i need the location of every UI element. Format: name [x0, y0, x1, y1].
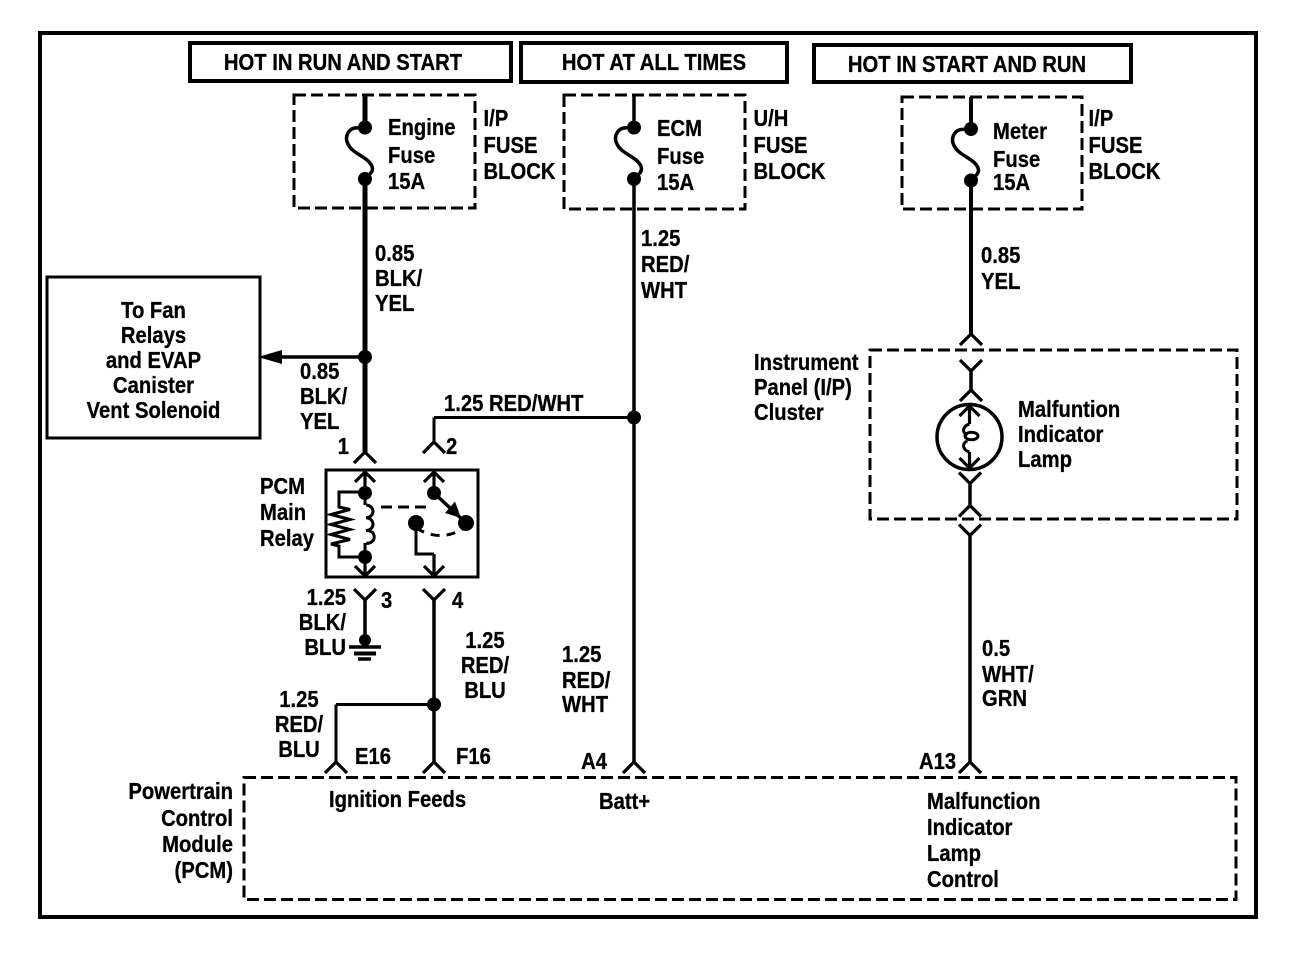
svg-text:Control: Control: [927, 866, 999, 893]
svg-text:BLK/: BLK/: [300, 383, 347, 410]
svg-text:1.25: 1.25: [307, 584, 346, 611]
svg-text:Malfuntion: Malfuntion: [1018, 396, 1120, 423]
svg-text:Meter: Meter: [993, 118, 1048, 145]
svg-text:BLU: BLU: [278, 736, 320, 763]
svg-text:I/P: I/P: [1089, 105, 1114, 132]
svg-text:Canister: Canister: [113, 372, 194, 399]
svg-text:Indicator: Indicator: [927, 814, 1013, 841]
svg-text:Vent Solenoid: Vent Solenoid: [87, 397, 221, 424]
svg-text:Fuse: Fuse: [388, 142, 435, 169]
svg-text:To Fan: To Fan: [121, 297, 186, 324]
svg-text:BLOCK: BLOCK: [484, 158, 556, 185]
svg-text:HOT AT ALL TIMES: HOT AT ALL TIMES: [562, 49, 746, 76]
svg-text:RED/: RED/: [461, 652, 509, 679]
svg-text:1.25: 1.25: [562, 641, 601, 668]
svg-text:YEL: YEL: [300, 408, 339, 435]
svg-text:0.85: 0.85: [981, 242, 1020, 269]
svg-text:BLOCK: BLOCK: [1089, 158, 1161, 185]
svg-text:BLU: BLU: [304, 634, 346, 661]
svg-text:BLK/: BLK/: [375, 265, 422, 292]
svg-text:HOT IN START AND RUN: HOT IN START AND RUN: [848, 51, 1086, 78]
svg-text:E16: E16: [355, 743, 391, 770]
svg-text:Engine: Engine: [388, 114, 455, 141]
svg-text:WHT: WHT: [641, 277, 687, 304]
svg-text:Control: Control: [161, 805, 233, 832]
svg-text:Module: Module: [162, 831, 233, 858]
svg-text:WHT/: WHT/: [982, 661, 1034, 688]
svg-text:Panel (I/P): Panel (I/P): [754, 374, 852, 401]
svg-text:Instrument: Instrument: [754, 349, 859, 376]
svg-text:Lamp: Lamp: [1018, 446, 1072, 473]
svg-text:A13: A13: [919, 748, 956, 775]
svg-text:0.85: 0.85: [375, 240, 414, 267]
svg-text:YEL: YEL: [981, 268, 1020, 295]
svg-text:Relays: Relays: [121, 322, 186, 349]
svg-text:1.25: 1.25: [641, 225, 680, 252]
svg-text:YEL: YEL: [375, 290, 414, 317]
svg-text:Fuse: Fuse: [657, 143, 704, 170]
svg-text:1: 1: [338, 433, 349, 460]
svg-text:15A: 15A: [388, 168, 425, 195]
svg-text:(PCM): (PCM): [175, 857, 233, 884]
svg-text:PCM: PCM: [260, 473, 305, 500]
svg-text:2: 2: [446, 433, 457, 460]
svg-text:Powertrain: Powertrain: [128, 778, 233, 805]
svg-text:BLOCK: BLOCK: [754, 158, 826, 185]
svg-text:RED/: RED/: [641, 251, 689, 278]
svg-text:GRN: GRN: [982, 685, 1027, 712]
svg-text:Main: Main: [260, 499, 306, 526]
svg-text:Cluster: Cluster: [754, 399, 824, 426]
svg-text:Batt+: Batt+: [599, 788, 650, 815]
svg-text:RED/: RED/: [562, 667, 610, 694]
svg-text:4: 4: [452, 587, 463, 614]
svg-text:BLU: BLU: [464, 677, 506, 704]
svg-text:WHT: WHT: [562, 691, 608, 718]
svg-text:ECM: ECM: [657, 115, 702, 142]
svg-text:Relay: Relay: [260, 525, 314, 552]
svg-text:RED/: RED/: [275, 711, 323, 738]
svg-text:Indicator: Indicator: [1018, 421, 1104, 448]
svg-text:F16: F16: [456, 743, 491, 770]
svg-text:Ignition Feeds: Ignition Feeds: [329, 786, 466, 813]
svg-text:FUSE: FUSE: [484, 132, 538, 159]
svg-text:FUSE: FUSE: [754, 132, 808, 159]
svg-text:FUSE: FUSE: [1089, 132, 1143, 159]
svg-text:0.5: 0.5: [982, 635, 1010, 662]
svg-text:3: 3: [381, 587, 392, 614]
svg-text:1.25 RED/WHT: 1.25 RED/WHT: [444, 390, 583, 417]
svg-text:HOT IN RUN AND START: HOT IN RUN AND START: [224, 49, 462, 76]
svg-text:Lamp: Lamp: [927, 840, 981, 867]
svg-text:U/H: U/H: [754, 105, 789, 132]
svg-text:0.85: 0.85: [300, 358, 339, 385]
svg-text:Malfunction: Malfunction: [927, 788, 1041, 815]
svg-text:BLK/: BLK/: [299, 609, 346, 636]
svg-text:I/P: I/P: [484, 105, 509, 132]
svg-text:15A: 15A: [657, 169, 694, 196]
svg-text:A4: A4: [581, 748, 607, 775]
svg-text:and EVAP: and EVAP: [106, 347, 201, 374]
svg-text:1.25: 1.25: [465, 627, 504, 654]
svg-text:15A: 15A: [993, 169, 1030, 196]
svg-text:1.25: 1.25: [279, 686, 318, 713]
